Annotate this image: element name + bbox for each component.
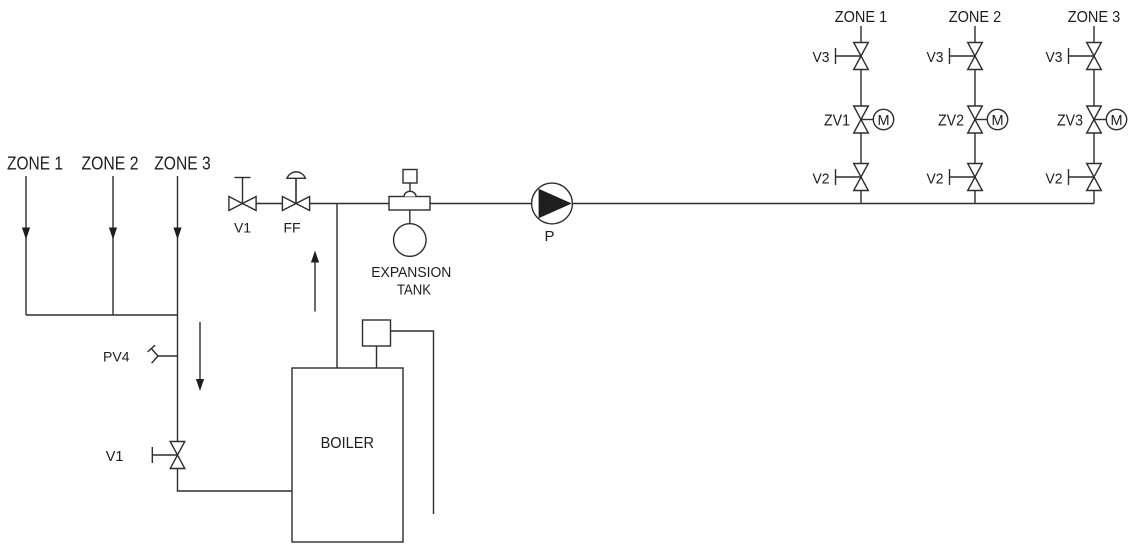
- svg-text:V2: V2: [813, 171, 830, 187]
- flow arrow up (supply): [314, 260, 316, 312]
- pipe: return manifold: [26, 314, 178, 316]
- pipe: zone 3 return riser: [177, 176, 179, 491]
- purge valve PV4: [148, 345, 178, 363]
- balancing valve V2 (zone 1): [836, 164, 869, 191]
- svg-text:V3: V3: [1046, 50, 1063, 66]
- pipe: zone 1 return drop: [25, 176, 27, 315]
- svg-text:ZONE 2: ZONE 2: [949, 9, 1002, 26]
- svg-text:TANK: TANK: [397, 281, 431, 298]
- svg-text:V2: V2: [927, 171, 944, 187]
- svg-text:V1: V1: [106, 449, 124, 465]
- balancing valve V3 (zone 2): [950, 43, 983, 70]
- valve V1 (fill line): [229, 178, 256, 211]
- pipe: zone 2 supply riser: [974, 26, 976, 204]
- air separator: [389, 170, 430, 211]
- pipe: zone 1 supply riser: [860, 26, 862, 204]
- relief discharge pipe: [391, 331, 434, 514]
- svg-text:ZONE 3: ZONE 3: [1068, 9, 1121, 26]
- svg-text:P: P: [544, 228, 554, 245]
- svg-text:V2: V2: [1046, 171, 1063, 187]
- pipe: zone 3 supply riser: [1093, 26, 1095, 204]
- svg-text:EXPANSION: EXPANSION: [371, 264, 451, 281]
- motorized zone valve ZV2: [968, 106, 1008, 133]
- balancing valve V3 (zone 3): [1069, 43, 1102, 70]
- flow arrow down (return riser): [199, 322, 201, 388]
- pipe: return run to boiler: [177, 490, 292, 492]
- valve V1 (return riser): [152, 442, 185, 469]
- svg-text:ZONE 2: ZONE 2: [82, 154, 139, 174]
- balancing valve V2 (zone 2): [950, 164, 983, 191]
- svg-text:BOILER: BOILER: [321, 435, 374, 452]
- svg-text:ZONE 3: ZONE 3: [154, 154, 211, 174]
- svg-text:M: M: [991, 113, 1003, 129]
- svg-text:V3: V3: [813, 50, 830, 66]
- svg-text:ZONE 1: ZONE 1: [835, 9, 888, 26]
- motorized zone valve ZV1: [854, 106, 894, 133]
- pump P: [532, 183, 573, 224]
- balancing valve V2 (zone 3): [1069, 164, 1102, 191]
- svg-text:M: M: [1110, 113, 1122, 129]
- flow arrow down (zone 3): [173, 228, 181, 240]
- pipe: zone 2 return drop: [112, 176, 114, 315]
- svg-text:V3: V3: [927, 50, 944, 66]
- expansion tank: [394, 210, 427, 256]
- svg-text:PV4: PV4: [103, 348, 130, 364]
- flow arrow down (zone 1): [22, 228, 30, 240]
- svg-text:M: M: [877, 113, 889, 129]
- boiler control box: [363, 320, 391, 368]
- motorized zone valve ZV3: [1087, 106, 1127, 133]
- svg-text:FF: FF: [283, 220, 300, 236]
- pipe: boiler supply riser: [336, 204, 338, 369]
- boiler: [292, 368, 403, 542]
- svg-text:ZONE 1: ZONE 1: [7, 154, 63, 174]
- svg-text:ZV3: ZV3: [1057, 113, 1083, 130]
- pipe: main supply header: [229, 203, 1094, 205]
- svg-text:ZV2: ZV2: [938, 113, 964, 130]
- svg-text:V1: V1: [234, 220, 251, 236]
- flow arrow down (zone 2): [109, 228, 117, 240]
- balancing valve V3 (zone 1): [836, 43, 869, 70]
- pressure reducing valve FF: [282, 172, 309, 211]
- svg-text:ZV1: ZV1: [824, 113, 850, 130]
